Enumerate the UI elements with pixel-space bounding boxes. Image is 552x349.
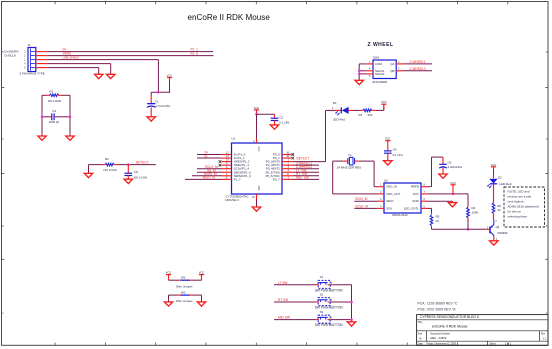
- wire U1 P0_2 to LED: [293, 110, 326, 161]
- svg-text:B: B: [420, 337, 422, 341]
- wire VBUS (J1 pin1 right then down): [48, 60, 158, 93]
- power VCC (D2): [491, 163, 497, 178]
- svg-text:REFB: REFB: [411, 185, 419, 189]
- wire REFB to C6: [428, 157, 444, 187]
- svg-text:DETECT: DETECT: [297, 156, 310, 160]
- svg-text:1000 pF: 1000 pF: [49, 120, 60, 124]
- Y1 left stub: [343, 160, 348, 162]
- ground (Q1): [490, 241, 498, 245]
- wire U1 SSEL pin: [197, 171, 222, 173]
- wire U2 GND: [428, 201, 453, 202]
- wire R4 to base rail: [467, 220, 469, 230]
- svg-text:SHLD2: SHLD2: [375, 72, 385, 76]
- switch S2 pushbutton: [315, 292, 344, 309]
- wire MID SW: [274, 319, 316, 321]
- wire C6 to ground: [442, 168, 444, 174]
- power VCC (U1): [254, 106, 260, 114]
- wire U1 P0_5: [293, 171, 319, 173]
- net label MID_SW (U1): [296, 176, 309, 180]
- diode D2 LED: [487, 176, 512, 189]
- resistor R1: [42, 89, 70, 103]
- svg-text:R1: R1: [50, 89, 54, 93]
- svg-text:1: 1: [24, 59, 26, 61]
- D1 pin numbers: [332, 107, 350, 110]
- wire D2 to R8: [493, 184, 495, 203]
- U1 refdes: [232, 137, 236, 141]
- power VCC (W1 right): [199, 271, 205, 281]
- wire GND (J1 pin4 to ground): [48, 64, 111, 75]
- wire LED_CNTL: [428, 208, 432, 213]
- ground (C6): [439, 174, 447, 178]
- ground (J1 pin5): [95, 74, 103, 78]
- wire R1C3 right vertical: [69, 95, 71, 135]
- svg-text:3: 3: [495, 220, 497, 223]
- svg-text:D-/SCLK: D-/SCLK: [5, 54, 17, 58]
- svg-text:GND: GND: [412, 199, 419, 203]
- U1 part number: [226, 194, 250, 201]
- svg-text:enCoRe II RDK Mouse: enCoRe II RDK Mouse: [188, 13, 271, 22]
- svg-text:ENCODER: ENCODER: [373, 80, 388, 84]
- wire D1 to R3: [348, 109, 363, 111]
- net label LT_SW (U1): [296, 168, 306, 172]
- wire C4 to ground: [387, 153, 389, 160]
- jumper W2: [169, 291, 202, 296]
- J1 pin 2 label D-/SCLK: [5, 54, 17, 58]
- transistor Q1: [490, 220, 508, 240]
- svg-text:REF - 13872: REF - 13872: [431, 336, 447, 340]
- title block Rev label: [541, 333, 547, 340]
- svg-text:330: 330: [368, 113, 373, 117]
- net label P1_1: [191, 47, 199, 51]
- svg-text:ADNS-2610: ADNS-2610: [392, 213, 408, 217]
- wire U1 VCC vertical: [256, 114, 258, 143]
- jumper W1: [169, 276, 202, 281]
- title block frame: [417, 315, 548, 346]
- svg-text:resistor are a pair: resistor are a pair: [508, 195, 532, 199]
- Z WHEEL heading: [368, 42, 394, 48]
- no-connect U1 pin P0_0: [292, 153, 295, 156]
- net label Z-WHEEL1: [410, 60, 426, 64]
- U1 bottom pin number: [252, 196, 255, 199]
- node U1 VCC junction: [255, 113, 258, 116]
- svg-text:PCA : CDS-30809 REV *C: PCA : CDS-30809 REV *C: [418, 302, 459, 306]
- encoder refdes SW1: [373, 55, 380, 59]
- note box: [504, 187, 545, 227]
- resistor R8: [492, 203, 501, 214]
- svg-text:PCB : PDC-9309 REV *A: PCB : PDC-9309 REV *A: [418, 307, 457, 311]
- title block Size label: [418, 333, 423, 340]
- svg-text:QB: QB: [390, 69, 394, 73]
- power VCC (C4): [385, 137, 391, 151]
- ground (R2): [84, 173, 92, 177]
- svg-text:SW1: SW1: [373, 55, 380, 59]
- title block Sheet label: [490, 342, 496, 345]
- svg-text:C: C: [546, 138, 548, 141]
- wire RT SW: [274, 301, 316, 303]
- ground (J1 pin4): [107, 74, 115, 78]
- svg-text:LT SW: LT SW: [278, 281, 287, 285]
- capacitor C8: [125, 165, 148, 180]
- svg-text:NO LOAD: NO LOAD: [104, 168, 117, 172]
- node VBUS junction: [157, 91, 160, 94]
- svg-text:enCoRe II RDK Mouse: enCoRe II RDK Mouse: [432, 325, 468, 329]
- node DETECT junction: [127, 163, 130, 166]
- svg-text:U2: U2: [384, 178, 388, 182]
- svg-text:2N3906: 2N3906: [497, 231, 508, 235]
- wire encoder COM: [359, 63, 366, 65]
- wire LED D1 left: [326, 109, 342, 111]
- svg-text:R3: R3: [359, 113, 363, 117]
- PCA revision note: [418, 302, 459, 306]
- svg-text:2.2uFd/16v: 2.2uFd/16v: [448, 165, 463, 169]
- S3 pin numbers: [317, 316, 333, 319]
- svg-text:C8: C8: [134, 170, 138, 174]
- wire U1 SMOSI pin: [192, 175, 222, 177]
- svg-text:ADNS-2610 datasheet): ADNS-2610 datasheet): [508, 205, 540, 209]
- ground (R1C3 left): [38, 136, 46, 140]
- svg-text:P1_1: P1_1: [191, 47, 199, 51]
- S1 pin numbers: [317, 282, 333, 285]
- U1 left pin numbers: [226, 152, 229, 180]
- title block company: [420, 315, 479, 319]
- power VCC (VBUS node): [167, 74, 173, 93]
- wire D- (J1 pin2 to net end): [48, 55, 214, 57]
- net label DETECT: [136, 160, 149, 164]
- svg-text:MOUSE II: MOUSE II: [226, 198, 239, 202]
- svg-text:(see Agilent: (see Agilent: [508, 200, 524, 204]
- svg-text:4: 4: [253, 140, 255, 143]
- switch S1 pushbutton: [315, 275, 344, 292]
- svg-text:Sheet: Sheet: [490, 342, 496, 345]
- wire Z-WHEEL2: [396, 70, 432, 72]
- svg-text:D-: D-: [205, 154, 208, 158]
- wire encoder shield vertical: [359, 64, 366, 80]
- ground (C2): [270, 125, 278, 129]
- svg-text:1 of 1: 1 of 1: [505, 342, 512, 345]
- wire U1 P0_7: [293, 178, 319, 180]
- svg-text:J1: J1: [28, 43, 32, 47]
- Y1 right stub: [355, 160, 359, 162]
- svg-text:NO LOAD: NO LOAD: [48, 99, 61, 103]
- resistor R4: [467, 206, 479, 220]
- U1 right pin stubs: [282, 155, 293, 180]
- no-connect U1 pin SSEL: [219, 164, 222, 167]
- svg-text:B: B: [2, 225, 4, 228]
- svg-text:Z WHEEL: Z WHEEL: [368, 42, 394, 48]
- U1 right pin numbers: [286, 152, 289, 180]
- node R1C3 left junction: [41, 116, 44, 119]
- U2 pin numbers: [380, 184, 425, 209]
- svg-text:Title: Title: [418, 321, 423, 324]
- svg-text:P1_0: P1_0: [191, 52, 199, 56]
- wire LT SW: [274, 284, 316, 286]
- svg-text:W2: W2: [181, 291, 186, 295]
- title block Title label: [418, 321, 423, 324]
- node encoder SHLD2 junction: [358, 73, 361, 76]
- wire U1 SMISO pin: [185, 178, 222, 180]
- svg-text:R2: R2: [105, 157, 109, 161]
- svg-text:2: 2: [24, 55, 26, 57]
- Q1 pin numbers: [487, 220, 498, 241]
- svg-text:LED-Red: LED-Red: [333, 117, 345, 121]
- wire Z-WHEEL1: [396, 63, 432, 65]
- power VCC (W1 left): [166, 271, 172, 281]
- net label SCLK_M (U2): [355, 204, 368, 208]
- svg-text:2: 2: [331, 316, 333, 319]
- svg-text:Wire Jumper: Wire Jumper: [176, 284, 193, 288]
- net label RT_SW (U1): [296, 172, 307, 176]
- net label SCLK_M: [205, 165, 218, 169]
- svg-text:SCK: SCK: [386, 206, 392, 210]
- wire C2 to ground: [274, 121, 276, 125]
- wire VBUS node horizontal: [151, 91, 170, 93]
- capacitor C6: [439, 161, 463, 170]
- net label D+ (U1): [205, 151, 209, 155]
- net label RT SW: [278, 298, 288, 302]
- wire U1 P0_3: [293, 164, 319, 166]
- svg-text:MID_SW: MID_SW: [296, 176, 309, 180]
- resistor R2: [102, 157, 118, 172]
- net label MISO_M: [203, 176, 216, 180]
- wire base rail: [432, 227, 490, 229]
- encoder SW1 body: [373, 60, 396, 79]
- svg-text:C2: C2: [279, 115, 283, 119]
- wire DETECT: [118, 164, 156, 166]
- op-amp U1 body (MCU CY7C63803): [232, 143, 283, 194]
- switch S3 pushbutton: [315, 310, 344, 327]
- wire R8 to Q1 emitter: [493, 214, 495, 221]
- PCB revision note: [418, 307, 457, 311]
- svg-text:VBUS: VBUS: [63, 52, 72, 56]
- net label MID SW: [278, 316, 290, 320]
- svg-text:1: 1: [348, 107, 350, 110]
- node base rail junction: [467, 228, 470, 231]
- op-amp U2 body (optical sensor): [384, 183, 421, 213]
- node R1C3 right junction: [69, 116, 72, 119]
- svg-text:SW PUSHBUTTON: SW PUSHBUTTON: [315, 323, 344, 327]
- wire U1 SCLK pin: [197, 168, 222, 170]
- ground (C4): [384, 161, 392, 165]
- svg-text:SCLK_M: SCLK_M: [355, 204, 368, 208]
- U2 refdes: [384, 178, 388, 182]
- ground (switch common): [347, 322, 355, 326]
- wire LT SW to common: [330, 284, 351, 286]
- W2 label: [176, 299, 193, 303]
- svg-text:SW PUSHBUTTON: SW PUSHBUTTON: [315, 306, 344, 310]
- svg-text:LED_CNTL: LED_CNTL: [404, 206, 419, 210]
- wire U1 P0_4: [293, 168, 319, 170]
- svg-text:Z-WHEEL1: Z-WHEEL1: [410, 60, 426, 64]
- net label P1_0: [191, 52, 199, 56]
- sheet title text: [188, 13, 271, 22]
- wire Y1 to OSC_IN: [359, 161, 378, 187]
- wire R1C3 left vertical: [41, 95, 43, 135]
- wire W2 right drop: [201, 295, 203, 302]
- svg-text:5: 5: [24, 67, 26, 69]
- J1 refdes: [28, 43, 32, 47]
- svg-text:SDIO: SDIO: [386, 199, 394, 203]
- ground (U1 VSS): [252, 207, 260, 211]
- svg-text:CYPRESS SEMICONDUCTOR BLDG 5: CYPRESS SEMICONDUCTOR BLDG 5: [420, 315, 479, 319]
- encoder left stubs: [366, 64, 373, 74]
- svg-text:Wire Jumper: Wire Jumper: [176, 299, 193, 303]
- wire RT SW to common: [330, 301, 351, 303]
- net label SS_M: [207, 168, 216, 172]
- svg-text:2: 2: [331, 299, 333, 302]
- svg-text:Size: Size: [418, 333, 423, 335]
- wire SDIO: [354, 200, 377, 202]
- svg-text:LED-Red: LED-Red: [499, 182, 511, 186]
- capacitor C2: [271, 115, 290, 124]
- svg-text:P0_7: P0_7: [273, 177, 280, 181]
- svg-text:2: 2: [332, 107, 334, 110]
- net label D+: [63, 48, 67, 52]
- net label USB_SHIELD: [63, 56, 80, 60]
- capacitor C1: [147, 99, 171, 108]
- net label DETECT (U1): [297, 156, 310, 160]
- capacitor C4: [384, 148, 403, 158]
- svg-text:D1: D1: [333, 101, 337, 105]
- J1 pin stubs: [36, 52, 48, 68]
- title block document number: [431, 336, 447, 340]
- svg-text:5 PIN MINI B TYPE: 5 PIN MINI B TYPE: [20, 72, 45, 76]
- encoder label: [373, 80, 388, 84]
- wire U1 D+ pin: [197, 154, 222, 156]
- svg-text:14: 14: [252, 196, 255, 199]
- net label Z-WHEEL2: [410, 67, 426, 71]
- svg-text:SDIO_M: SDIO_M: [355, 197, 368, 201]
- ground (encoder): [355, 80, 363, 84]
- svg-text:0.1 uFd: 0.1 uFd: [279, 121, 289, 125]
- svg-text:C4: C4: [393, 148, 397, 152]
- U2 right pin stubs: [421, 187, 428, 209]
- svg-text:Rev: Rev: [541, 333, 546, 335]
- ground (W2 left): [164, 302, 172, 306]
- wire MID SW to common: [330, 319, 351, 321]
- node U2 VCC junction: [452, 193, 455, 196]
- title block Date label: [418, 342, 424, 345]
- svg-text:RT SW: RT SW: [278, 298, 288, 302]
- svg-text:S1: S1: [320, 275, 324, 279]
- node S2 junction: [350, 301, 353, 304]
- wire C8 to ground: [127, 176, 129, 180]
- svg-text:USB_SHIELD: USB_SHIELD: [63, 56, 80, 60]
- svg-text:Date:: Date:: [418, 342, 424, 345]
- resistor R3: [359, 109, 373, 117]
- svg-text:Y1: Y1: [348, 153, 352, 157]
- U2 left pin stubs: [378, 187, 385, 209]
- svg-text:MID SW: MID SW: [278, 316, 290, 320]
- J1 pin numbers: [24, 51, 26, 69]
- U1 top pin number: [253, 140, 255, 143]
- capacitor C3: [42, 109, 70, 124]
- svg-text:4.7uFd 25v: 4.7uFd 25v: [155, 104, 170, 108]
- net label LT SW: [278, 281, 287, 285]
- ground (W2 right): [197, 302, 205, 306]
- U2 part number: [392, 213, 408, 217]
- net label SDIO_M: [355, 197, 368, 201]
- wire U1 VSS: [256, 194, 258, 207]
- title block Document Number label: [431, 332, 451, 335]
- svg-text:Document Number: Document Number: [431, 332, 451, 335]
- svg-text:VCC: VCC: [413, 192, 420, 196]
- svg-text:0.1 uFd: 0.1 uFd: [393, 153, 403, 157]
- U1 left pin stubs: [222, 155, 232, 180]
- wire U1 D- pin: [197, 157, 222, 159]
- no-connect U1 pin VREG: [219, 160, 222, 163]
- wire detect ground riser: [89, 165, 102, 173]
- svg-text:selecting them.: selecting them.: [508, 215, 529, 219]
- W1 label: [176, 284, 193, 288]
- svg-text:1K: 1K: [436, 219, 440, 223]
- svg-text:44: 44: [497, 208, 501, 212]
- wire SHIELD (J1 pin5 to ground): [48, 68, 99, 75]
- svg-text:Friday, September 02, 2005: Friday, September 02, 2005: [427, 342, 457, 345]
- wire U2 VCC: [428, 193, 469, 195]
- ground (C1): [147, 117, 155, 121]
- wire VCC to R4: [467, 194, 469, 206]
- svg-text:QA: QA: [390, 62, 394, 66]
- ground (U2): [448, 203, 456, 207]
- net label MOSI_M: [204, 172, 217, 176]
- svg-text:24 MHZ CER RES: 24 MHZ CER RES: [337, 165, 361, 169]
- wire C1 lead: [150, 92, 152, 103]
- svg-text:3: 3: [24, 51, 26, 53]
- svg-text:C: C: [2, 138, 4, 141]
- svg-text:4: 4: [24, 63, 26, 65]
- power VCC (R3): [381, 100, 387, 110]
- wire Y1 to OSC_OUT: [333, 161, 378, 194]
- J1 footprint note: [20, 72, 45, 76]
- net label VBUS: [63, 52, 72, 56]
- svg-text:NOTE: LED and: NOTE: LED and: [508, 190, 530, 194]
- svg-text:Z-WHEEL2: Z-WHEEL2: [410, 67, 426, 71]
- svg-text:5: 5: [369, 75, 371, 78]
- resistor R5: [430, 213, 439, 227]
- svg-text:DETECT: DETECT: [136, 160, 149, 164]
- title block date: [427, 342, 457, 345]
- wire C2 branch: [257, 114, 275, 117]
- svg-text:D: D: [546, 51, 548, 54]
- ground (C8): [124, 179, 132, 183]
- node encoder SHLD1 junction: [358, 70, 361, 73]
- svg-text:100K: 100K: [472, 210, 479, 214]
- svg-text:VCC: VCC: [257, 147, 260, 152]
- svg-text:B: B: [546, 225, 548, 228]
- title block sheet number: [505, 342, 512, 345]
- wire switch common vertical: [351, 285, 353, 322]
- net label Z-WHEEL2 (U1): [296, 165, 312, 169]
- net label D- (U1): [205, 154, 208, 158]
- svg-text:W1: W1: [181, 276, 186, 280]
- svg-text:U1: U1: [232, 137, 236, 141]
- svg-text:COM: COM: [375, 62, 382, 66]
- resonator Y1: [348, 153, 355, 165]
- svg-text:OSC_OUT: OSC_OUT: [386, 192, 400, 196]
- svg-text:VSS: VSS: [257, 186, 260, 191]
- svg-text:C6: C6: [448, 161, 452, 165]
- svg-text:MISO_M: MISO_M: [203, 176, 216, 180]
- Y1 value label: [337, 165, 361, 169]
- wire D+ (J1 pin3 to net end): [48, 51, 213, 53]
- wire SCK: [354, 207, 377, 209]
- svg-text:C1: C1: [155, 99, 159, 103]
- node S3 junction: [350, 318, 353, 321]
- J1 pin 3 label D+/SDATA: [5, 50, 19, 54]
- wire W2 left drop: [168, 295, 170, 302]
- svg-text:A: A: [2, 312, 4, 315]
- svg-text:NO LOAD: NO LOAD: [134, 175, 147, 179]
